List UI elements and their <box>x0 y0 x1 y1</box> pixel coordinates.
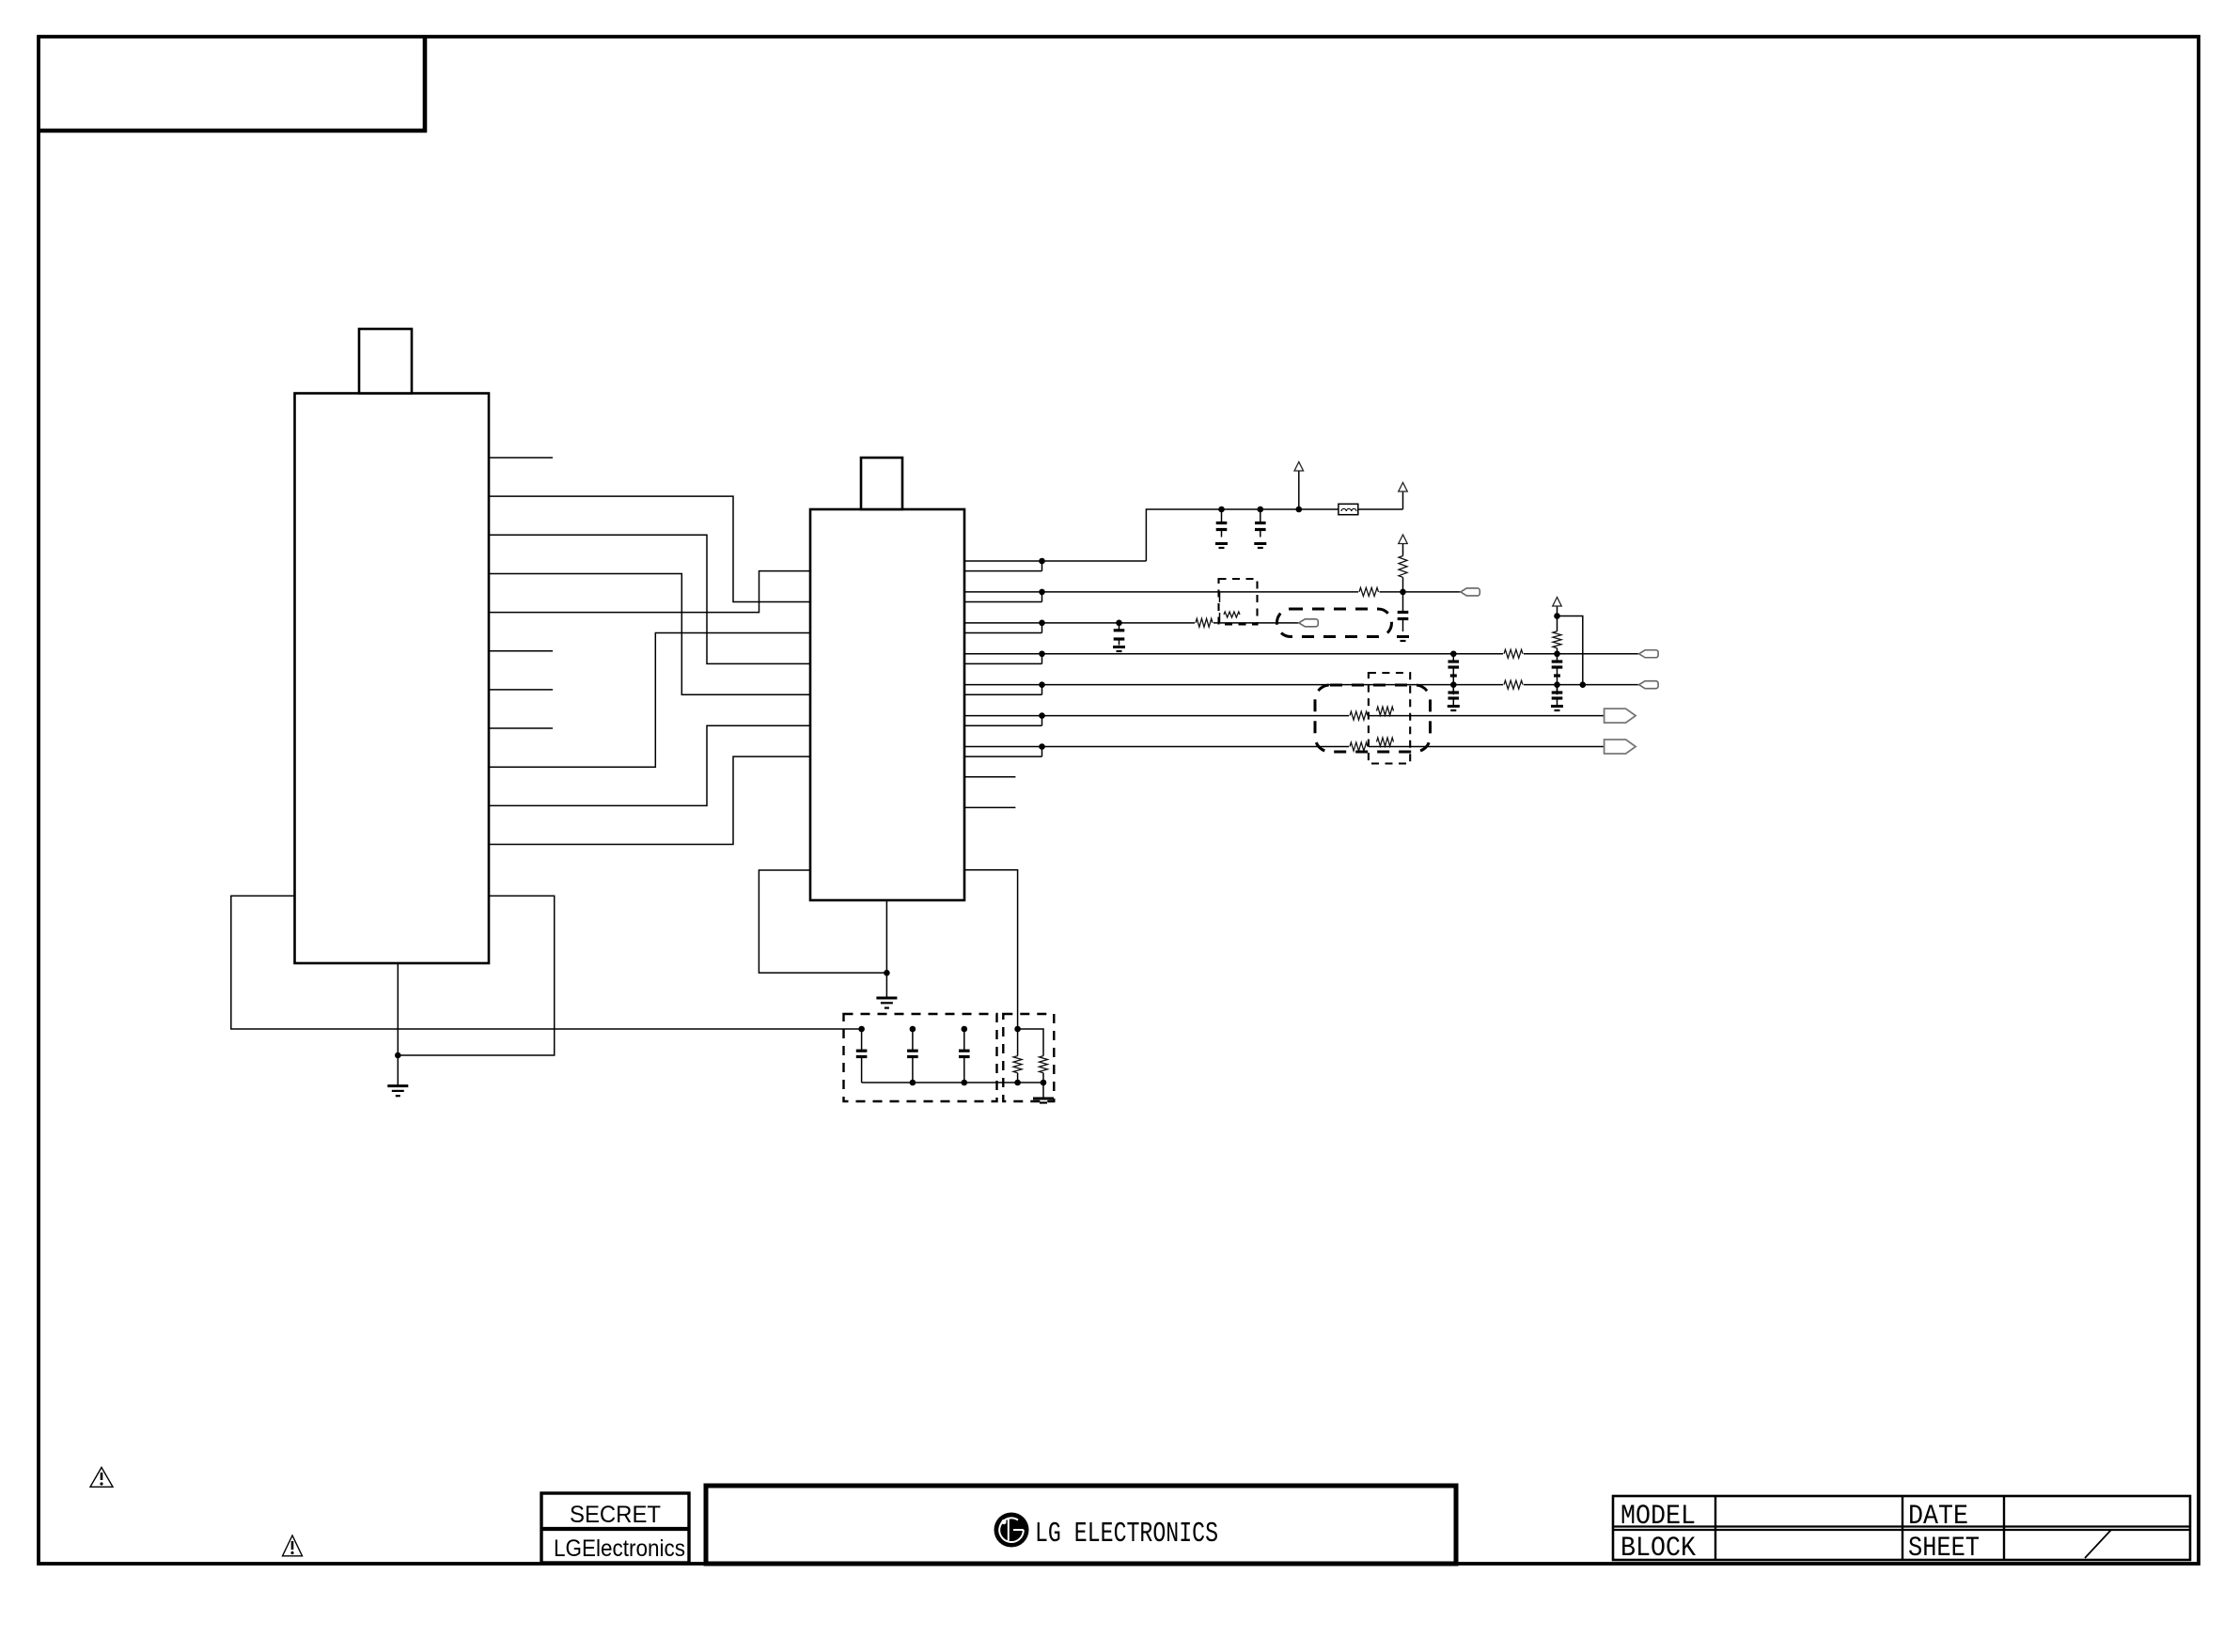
dashed stadium D2 <box>1277 609 1392 637</box>
dashed box D3 rounded <box>1315 685 1431 752</box>
connector pentagon row6 <box>1605 709 1636 723</box>
wire U2 right pin pair row3 <box>964 631 1042 633</box>
capacitor bank C9 <box>858 1026 865 1033</box>
wire bank bottom rail <box>862 1082 1043 1083</box>
dashed box D1 <box>1219 579 1258 625</box>
wire U2 row5 horizontal <box>964 684 1639 686</box>
wire U1 pin11 to U2 <box>489 756 810 844</box>
svg-text:SECRET: SECRET <box>570 1502 661 1528</box>
resistor R9 inline row7 <box>1349 741 1369 753</box>
ground C2 <box>1254 542 1266 545</box>
wire U2 row4 horizontal <box>964 653 1639 655</box>
resistor R5 inline row4 <box>1503 648 1524 660</box>
wire U1 pin5 to U2 <box>489 571 810 613</box>
resistor R13 bank <box>1040 1056 1048 1073</box>
wire U1 pin6 stub <box>489 650 553 652</box>
wire U2 row3 horizontal <box>964 622 1299 624</box>
wire U2 right pin pair row7 <box>964 756 1042 757</box>
ic U1 <box>295 394 490 964</box>
dashed box D5 caps <box>844 1014 997 1101</box>
svg-text:MODEL: MODEL <box>1621 1501 1696 1533</box>
resistor R4 link row2-row3 <box>1219 592 1221 602</box>
resistor R7 pullup row4 <box>1557 648 1558 654</box>
capacitor C3 row3 to gnd <box>1116 620 1122 627</box>
capacitor C2 <box>1258 507 1264 513</box>
node rail junction <box>1014 1026 1021 1033</box>
wire U1 pin8 stub <box>489 727 553 729</box>
resistor R3 inline row3 <box>1195 617 1213 629</box>
capacitor bank C11 <box>962 1026 968 1033</box>
wire U2 right pin pair row1 <box>964 570 1042 572</box>
power arrow P2 riser <box>1296 507 1303 513</box>
wire U2 bottom pin <box>885 900 887 998</box>
connector tag row4 <box>1639 650 1659 658</box>
capacitor C6 row5 to gnd <box>1452 685 1454 693</box>
wire U2 stub pin9 <box>964 806 1015 808</box>
capacitor C1 <box>1218 507 1225 513</box>
resistor R8 inline row6 <box>1349 710 1369 722</box>
secret box <box>541 1493 689 1563</box>
wire U2 right pin pair row6 <box>964 725 1042 726</box>
resistor R6 inline row5 <box>1503 679 1524 691</box>
sheet slash <box>2085 1530 2111 1558</box>
resistor R12 bank <box>1017 1029 1019 1056</box>
wire U1 right lower pin loop <box>398 896 554 1055</box>
node row5 cap chain left <box>1450 681 1457 688</box>
wire U2 right pin pair row2 <box>964 601 1042 603</box>
wire U1 pin4 to U2 <box>489 573 810 694</box>
wire U2 row1 horizontal <box>964 560 1146 562</box>
wire U1 pin7 stub <box>489 689 553 691</box>
ground C4 <box>1397 635 1409 638</box>
resistor R10 ghost row6 <box>1377 707 1394 715</box>
connector tag row3 <box>1299 619 1319 627</box>
power arrow P1 <box>1399 483 1408 492</box>
svg-text:LG ELECTRONICS: LG ELECTRONICS <box>1035 1518 1218 1551</box>
svg-text:DATE: DATE <box>1908 1501 1968 1533</box>
node row5 <box>1554 681 1560 688</box>
dashed box D6 resistors <box>1003 1014 1054 1101</box>
capacitor bank C10 <box>910 1026 916 1033</box>
lg electronics box <box>706 1486 1456 1564</box>
wire U2 row2 horizontal <box>964 591 1461 593</box>
wire U1 pin3 to U2 <box>489 535 810 663</box>
warning triangle W2 <box>283 1535 303 1556</box>
svg-text:LGElectronics: LGElectronics <box>554 1535 685 1562</box>
svg-text:SHEET: SHEET <box>1908 1533 1980 1565</box>
ground C1 <box>1215 542 1228 545</box>
wire U1 pin10 to U2 <box>489 725 810 805</box>
svg-text:BLOCK: BLOCK <box>1621 1533 1696 1565</box>
wire U2 pin to cap bank <box>964 870 1018 1029</box>
connector pentagon row7 <box>1605 740 1636 754</box>
wire U1 left pin to rail <box>231 896 862 1029</box>
wire U1 pin2 to U2 <box>489 496 810 601</box>
capacitor C8 row5 to gnd <box>1557 685 1558 693</box>
resistor R11 ghost row7 <box>1377 738 1394 746</box>
ground G1 <box>387 1084 408 1087</box>
ground G2 <box>876 997 897 1000</box>
capacitor C4 row2 to gnd <box>1402 592 1404 613</box>
capacitor C7 between rows <box>1557 654 1558 662</box>
power arrow P4 <box>1553 598 1562 607</box>
connector tag row2 <box>1461 588 1480 596</box>
ground bank <box>1042 1083 1044 1099</box>
connector tag row5 <box>1639 681 1659 689</box>
warning triangle W1 <box>90 1468 113 1488</box>
model/block table <box>1613 1496 2190 1565</box>
ic U2 top pin box <box>861 458 902 509</box>
wire U2 left pin 926 <box>759 870 886 973</box>
wire U1 pin1 stub <box>489 457 553 459</box>
node U2 ground junction <box>884 970 890 976</box>
wire bank top rail right <box>1018 1029 1043 1056</box>
resistor R1 inline row2 <box>1358 586 1380 598</box>
wire U2 right pin pair row4 <box>964 662 1042 664</box>
node row4 cap chain left <box>1450 650 1457 657</box>
power arrow P3 <box>1399 535 1408 544</box>
node U1 ground junction <box>395 1052 401 1059</box>
dashed box D4 <box>1369 673 1410 764</box>
ferrite bead FB1 <box>1339 504 1358 514</box>
wire rail riser to VCC <box>1402 491 1404 509</box>
ic U1 top pin box <box>359 329 412 394</box>
node row2 pullup junction <box>1400 589 1406 596</box>
wire U1 bottom pin <box>397 963 399 1086</box>
power arrow P2 <box>1294 462 1304 472</box>
wire pullup to row5 <box>1558 616 1583 685</box>
resistor R2 pullup row2 <box>1402 577 1404 592</box>
node row4 pullup <box>1554 650 1560 657</box>
wire U2 stub pin8 <box>964 776 1015 778</box>
ic U2 <box>810 509 964 900</box>
ground C3 <box>1113 646 1125 648</box>
wire U2 row7 horizontal <box>964 746 1605 748</box>
wire power rail row1 <box>1146 509 1339 561</box>
wire U2 right pin pair row5 <box>964 694 1042 695</box>
wire U2 row6 horizontal <box>964 715 1605 717</box>
wire U1 pin9 to U2 <box>489 632 810 767</box>
capacitor C5 between rows <box>1452 654 1454 662</box>
